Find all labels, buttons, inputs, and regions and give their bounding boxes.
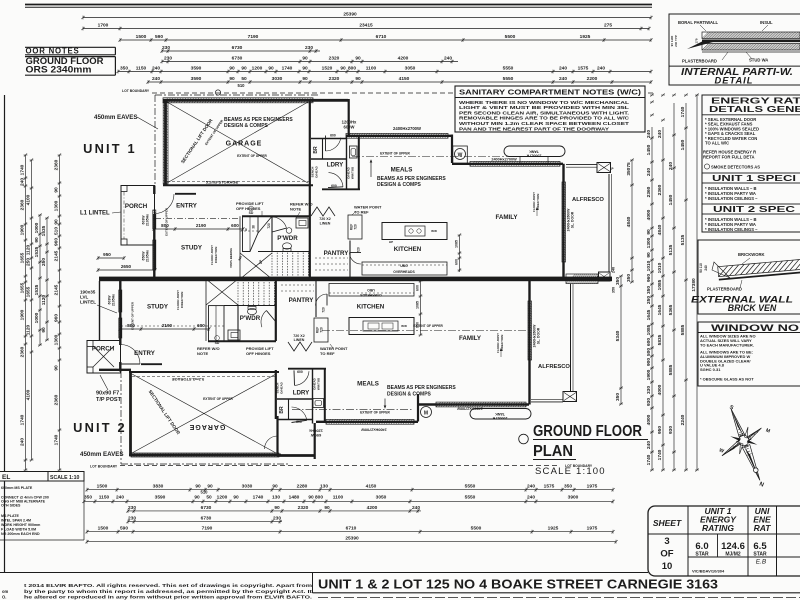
svg-text:960: 960 bbox=[54, 238, 60, 246]
svg-text:GARAGE: GARAGE bbox=[189, 423, 226, 430]
svg-text:1200: 1200 bbox=[217, 494, 228, 500]
svg-text:2400Hx2700W: 2400Hx2700W bbox=[361, 428, 387, 432]
unit 1 beams leader bbox=[370, 160, 372, 177]
svg-text:LDRY: LDRY bbox=[293, 390, 310, 397]
svg-text:ORS 2340mm: ORS 2340mm bbox=[26, 65, 92, 75]
svg-text:240: 240 bbox=[559, 76, 567, 82]
unit 2 entry door bbox=[121, 345, 141, 365]
svg-text:90: 90 bbox=[646, 252, 652, 258]
unit 2 pwdr walls bbox=[208, 340, 276, 342]
svg-text:2105Hx: 2105Hx bbox=[146, 214, 150, 226]
svg-text:1010: 1010 bbox=[646, 260, 652, 271]
svg-text:1085: 1085 bbox=[657, 279, 663, 290]
svg-text:M: M bbox=[424, 411, 428, 417]
svg-text:240: 240 bbox=[668, 162, 674, 170]
svg-text:330: 330 bbox=[646, 386, 652, 394]
svg-text:510: 510 bbox=[201, 490, 209, 495]
external wall brick veneer box bbox=[698, 240, 800, 314]
svg-text:4150: 4150 bbox=[399, 76, 410, 82]
svg-text:ENTRY: ENTRY bbox=[134, 350, 156, 357]
svg-text:90: 90 bbox=[207, 484, 213, 490]
left scan border bbox=[4, 95, 6, 572]
svg-text:1740: 1740 bbox=[646, 454, 652, 465]
svg-text:6.0: 6.0 bbox=[695, 541, 708, 552]
svg-text:4840: 4840 bbox=[657, 224, 663, 235]
svg-text:350: 350 bbox=[646, 286, 652, 294]
svg-text:DETAIL: DETAIL bbox=[715, 76, 754, 86]
svg-text:OVERHEADS: OVERHEADS bbox=[360, 293, 382, 297]
unit 1 stairs bbox=[271, 253, 273, 277]
svg-text:930: 930 bbox=[668, 426, 674, 434]
unit 1 W alcove bbox=[451, 135, 453, 164]
svg-text:2400Hx2700W: 2400Hx2700W bbox=[393, 126, 421, 131]
svg-text:1740: 1740 bbox=[20, 414, 26, 425]
svg-text:DIRECTION: DIRECTION bbox=[536, 194, 540, 211]
unit 1 alfresco top beam lines bbox=[566, 164, 597, 166]
svg-text:1150: 1150 bbox=[99, 494, 110, 500]
parti-wall title bbox=[669, 65, 800, 67]
svg-text:t 2014 ELVIR BAFTO. All ri: t 2014 ELVIR BAFTO. All rights reserved.… bbox=[24, 583, 312, 588]
svg-text:RATING: RATING bbox=[702, 523, 734, 533]
internal parti-wall detail box bbox=[669, 14, 800, 85]
unit 2 garage walls bbox=[129, 454, 281, 457]
svg-text:INSUL: INSUL bbox=[760, 20, 773, 25]
svg-text:5500: 5500 bbox=[471, 526, 482, 532]
svg-text:240: 240 bbox=[646, 130, 652, 138]
svg-text:1740: 1740 bbox=[680, 106, 686, 117]
svg-text:UNIT 1 SPECI: UNIT 1 SPECI bbox=[712, 174, 796, 183]
unit 2 br/ldry block bbox=[277, 454, 314, 457]
svg-text:600: 600 bbox=[416, 285, 420, 291]
svg-text:1900: 1900 bbox=[20, 309, 26, 320]
svg-text:600W: 600W bbox=[311, 433, 322, 438]
svg-text:4840: 4840 bbox=[626, 216, 632, 227]
svg-text:1975: 1975 bbox=[587, 526, 598, 532]
separator line above footer bbox=[0, 572, 648, 574]
unit 2 left boundary wall bbox=[99, 281, 101, 341]
svg-text:510: 510 bbox=[238, 83, 246, 88]
svg-text:BEAMS AS PER ENGINEERS: BEAMS AS PER ENGINEERS bbox=[387, 385, 456, 391]
svg-text:EXTENT OF UPPER: EXTENT OF UPPER bbox=[360, 411, 390, 415]
svg-text:W/D: W/D bbox=[401, 324, 408, 328]
svg-text:90: 90 bbox=[41, 327, 47, 333]
unit 2 pwdr door bbox=[261, 311, 266, 328]
svg-text:950: 950 bbox=[657, 426, 663, 434]
svg-text:1085: 1085 bbox=[646, 324, 652, 335]
svg-text:W/D: W/D bbox=[431, 229, 438, 233]
svg-text:6730: 6730 bbox=[232, 56, 243, 62]
svg-text:1200: 1200 bbox=[252, 66, 263, 72]
svg-text:1925: 1925 bbox=[548, 526, 559, 532]
svg-text:BORAL PARTIWALL: BORAL PARTIWALL bbox=[678, 20, 719, 25]
svg-text:TANK: TANK bbox=[495, 412, 505, 416]
unit 2 porch bbox=[87, 341, 121, 374]
svg-text:250: 250 bbox=[41, 258, 47, 266]
svg-text:90: 90 bbox=[229, 66, 235, 72]
svg-text:1300: 1300 bbox=[646, 237, 652, 248]
svg-text:2000LTR: 2000LTR bbox=[526, 154, 541, 158]
unit 1 porch bbox=[121, 186, 155, 246]
svg-text:E.B: E.B bbox=[756, 559, 767, 566]
svg-text:3590: 3590 bbox=[191, 66, 202, 72]
svg-text:SD: SD bbox=[249, 211, 254, 215]
svg-text:950: 950 bbox=[103, 252, 111, 257]
svg-text:4200: 4200 bbox=[398, 56, 409, 62]
unit 1 basin bbox=[296, 218, 308, 228]
svg-text:1740: 1740 bbox=[253, 494, 264, 500]
unit 2 porch dims 950/2650 bbox=[98, 257, 124, 259]
svg-text:1575: 1575 bbox=[578, 66, 589, 72]
svg-text:3050: 3050 bbox=[376, 494, 387, 500]
svg-text:90: 90 bbox=[54, 219, 60, 225]
svg-text:4000: 4000 bbox=[646, 209, 652, 220]
svg-text:MEALS: MEALS bbox=[357, 381, 379, 388]
svg-text:1655: 1655 bbox=[26, 286, 32, 297]
svg-text:PLASTERBOARD: PLASTERBOARD bbox=[707, 287, 742, 292]
svg-text:2280: 2280 bbox=[297, 484, 308, 490]
svg-text:TO ALL W/C: TO ALL W/C bbox=[705, 141, 729, 146]
svg-text:250: 250 bbox=[26, 258, 32, 266]
svg-text:5550: 5550 bbox=[503, 76, 514, 82]
svg-text:1450: 1450 bbox=[680, 139, 686, 150]
svg-text:3590: 3590 bbox=[191, 76, 202, 82]
svg-text:240: 240 bbox=[646, 441, 652, 449]
svg-text:600: 600 bbox=[197, 323, 205, 328]
svg-text:240: 240 bbox=[152, 76, 160, 82]
unit 1 eaves dashed outline bbox=[154, 95, 156, 186]
svg-text:6.5: 6.5 bbox=[753, 541, 767, 552]
svg-text:1120: 1120 bbox=[41, 294, 47, 305]
svg-text:SCALE 1:100: SCALE 1:100 bbox=[535, 466, 606, 477]
svg-text:P'WDR: P'WDR bbox=[277, 235, 298, 242]
unit 1 garage door diagonals bbox=[167, 102, 308, 183]
svg-text:STUD WA: STUD WA bbox=[749, 58, 768, 63]
svg-text:EL: EL bbox=[2, 474, 10, 481]
svg-text:O.: O. bbox=[2, 595, 6, 600]
svg-text:1000: 1000 bbox=[34, 312, 40, 323]
svg-text:SCALE 1:10: SCALE 1:10 bbox=[50, 475, 80, 481]
svg-text:EXTENT OF UPPER: EXTENT OF UPPER bbox=[237, 154, 267, 158]
svg-text:1655: 1655 bbox=[20, 282, 26, 293]
svg-text:5550: 5550 bbox=[465, 484, 476, 490]
svg-text:1085: 1085 bbox=[416, 301, 420, 309]
svg-text:930: 930 bbox=[646, 398, 652, 406]
svg-text:4100: 4100 bbox=[26, 389, 32, 400]
svg-text:NOTE: NOTE bbox=[290, 207, 301, 212]
svg-text:* OBSCURE GLASS AS NOT: * OBSCURE GLASS AS NOT bbox=[700, 377, 754, 382]
svg-text:90: 90 bbox=[233, 494, 239, 500]
svg-text:he altered or reproduced i: he altered or reproduced in any form wit… bbox=[24, 595, 312, 600]
svg-text:O/HEAD: O/HEAD bbox=[280, 381, 284, 394]
svg-text:NG 200mm EACH END: NG 200mm EACH END bbox=[1, 532, 40, 536]
svg-text:3590: 3590 bbox=[155, 494, 166, 500]
svg-text:4200: 4200 bbox=[367, 505, 378, 511]
svg-text:240: 240 bbox=[646, 168, 652, 176]
svg-text:3900: 3900 bbox=[568, 494, 579, 500]
svg-text:1645: 1645 bbox=[646, 309, 652, 320]
svg-text:720: 720 bbox=[357, 247, 361, 253]
svg-text:BR: BR bbox=[279, 406, 285, 414]
svg-text:230: 230 bbox=[273, 516, 281, 522]
svg-text:SL. DOOR: SL. DOOR bbox=[537, 327, 541, 344]
svg-text:1575: 1575 bbox=[544, 484, 555, 490]
svg-text:SGHC 0.31: SGHC 0.31 bbox=[700, 367, 721, 372]
svg-text:5: 5 bbox=[245, 228, 247, 232]
svg-text:90: 90 bbox=[34, 237, 40, 243]
unit 2 extent of upper line bbox=[292, 409, 412, 411]
svg-text:240: 240 bbox=[20, 438, 26, 446]
svg-text:WM/TUB: WM/TUB bbox=[351, 166, 355, 179]
svg-text:3050: 3050 bbox=[405, 66, 416, 72]
svg-text:5550: 5550 bbox=[503, 66, 514, 72]
compass rose bbox=[707, 401, 779, 490]
unit 2 toilet bbox=[248, 308, 257, 314]
svg-text:PLAN: PLAN bbox=[533, 443, 573, 460]
svg-text:240: 240 bbox=[444, 56, 452, 62]
svg-text:6730: 6730 bbox=[201, 505, 212, 511]
svg-text:5135: 5135 bbox=[680, 234, 686, 245]
svg-text:3030: 3030 bbox=[242, 484, 253, 490]
svg-text:350: 350 bbox=[615, 393, 621, 401]
svg-text:50: 50 bbox=[241, 76, 247, 82]
svg-text:VIC/BDAV/10/304: VIC/BDAV/10/304 bbox=[692, 569, 725, 574]
svg-text:600mm MS PLATE: 600mm MS PLATE bbox=[1, 486, 33, 490]
svg-text:OTH SIDES: OTH SIDES bbox=[1, 504, 21, 508]
svg-text:130: 130 bbox=[272, 494, 280, 500]
svg-text:1535: 1535 bbox=[41, 225, 47, 236]
svg-text:720: 720 bbox=[267, 223, 271, 229]
unit 1 hall dashes bbox=[239, 216, 241, 277]
unit 1 entry top wall bbox=[175, 193, 196, 195]
unit 1 closet bbox=[243, 216, 259, 251]
svg-text:1000: 1000 bbox=[34, 222, 40, 233]
svg-text:4100: 4100 bbox=[26, 194, 32, 205]
svg-text:38: 38 bbox=[252, 225, 256, 229]
svg-text:LDRY: LDRY bbox=[327, 162, 344, 169]
svg-text:450mm EAVES: 450mm EAVES bbox=[94, 114, 138, 121]
energy rating details box bbox=[702, 95, 800, 232]
svg-text:960: 960 bbox=[646, 274, 652, 282]
svg-text:1300: 1300 bbox=[54, 200, 60, 211]
unit 2 spec header bbox=[702, 204, 800, 214]
svg-text:ALFRESCO: ALFRESCO bbox=[538, 364, 570, 370]
svg-text:NOTE: NOTE bbox=[197, 351, 208, 356]
svg-text:2360: 2360 bbox=[657, 184, 663, 195]
svg-text:1655: 1655 bbox=[20, 252, 26, 263]
svg-text:INTEL SPAN 2.4M: INTEL SPAN 2.4M bbox=[1, 519, 31, 523]
unit 2 garage diagonals bbox=[132, 374, 276, 453]
svg-text:WORK HEIGHT 900mm: WORK HEIGHT 900mm bbox=[1, 523, 40, 527]
unit 2 W alcove bbox=[417, 394, 419, 422]
svg-text:1450: 1450 bbox=[668, 194, 674, 205]
svg-text:DESIGN & COMPS: DESIGN & COMPS bbox=[224, 123, 269, 129]
unit 2 garage door arc bbox=[265, 436, 278, 449]
unit 1 entry-study dim row bbox=[154, 228, 243, 230]
ground floor plan title bbox=[519, 434, 529, 444]
svg-text:240: 240 bbox=[412, 505, 420, 511]
svg-text:5885: 5885 bbox=[680, 324, 686, 335]
svg-text:2320: 2320 bbox=[298, 505, 309, 511]
svg-text:2105Hx: 2105Hx bbox=[146, 250, 150, 262]
svg-text:UNIT 1 & 2 LOT 125 NO 4 BOAKE: UNIT 1 & 2 LOT 125 NO 4 BOAKE STREET CAR… bbox=[318, 577, 718, 592]
svg-text:600: 600 bbox=[297, 370, 303, 374]
svg-text:STAR: STAR bbox=[695, 552, 709, 558]
svg-text:W: W bbox=[458, 153, 463, 159]
bottom dimension rows bbox=[87, 489, 613, 491]
svg-text:960: 960 bbox=[54, 314, 60, 322]
svg-text:FAMILY: FAMILY bbox=[459, 335, 482, 342]
svg-text:240: 240 bbox=[597, 66, 605, 72]
svg-text:179: 179 bbox=[695, 38, 699, 43]
svg-text:130: 130 bbox=[320, 484, 328, 490]
unit 2 garage storage dashed bbox=[132, 376, 277, 378]
svg-text:UBO: UBO bbox=[367, 288, 375, 292]
svg-text:FAMILY: FAMILY bbox=[495, 214, 518, 221]
svg-text:1450: 1450 bbox=[646, 144, 652, 155]
svg-text:590: 590 bbox=[120, 526, 128, 532]
svg-text:90: 90 bbox=[54, 187, 60, 193]
svg-text:5500: 5500 bbox=[505, 34, 516, 40]
svg-text:KITCHEN: KITCHEN bbox=[357, 304, 385, 311]
svg-text:1010: 1010 bbox=[657, 262, 663, 273]
svg-text:1100: 1100 bbox=[366, 66, 377, 72]
svg-text:DETAILS GENE: DETAILS GENE bbox=[709, 104, 800, 114]
svg-text:LOT BOUNDARY: LOT BOUNDARY bbox=[90, 465, 118, 469]
svg-text:2190: 2190 bbox=[162, 323, 173, 328]
svg-text:240: 240 bbox=[527, 484, 535, 490]
svg-text:STUDY: STUDY bbox=[181, 245, 203, 252]
svg-text:90: 90 bbox=[340, 66, 346, 72]
svg-text:EXTENT OF UPPER: EXTENT OF UPPER bbox=[380, 152, 410, 156]
svg-text:350: 350 bbox=[612, 287, 616, 293]
svg-text:DIRECTION: DIRECTION bbox=[180, 292, 184, 309]
svg-text:T/P POST: T/P POST bbox=[96, 397, 122, 403]
svg-text:230: 230 bbox=[128, 516, 136, 522]
svg-text:7190: 7190 bbox=[202, 526, 213, 532]
svg-text:4000: 4000 bbox=[646, 414, 652, 425]
svg-text:5.2m3-STORAGE: 5.2m3-STORAGE bbox=[171, 377, 204, 382]
unit 2 tank bbox=[470, 409, 531, 420]
svg-text:510: 510 bbox=[54, 227, 60, 235]
svg-text:BRICKWORK: BRICKWORK bbox=[738, 252, 765, 257]
svg-text:LINEN: LINEN bbox=[320, 222, 331, 226]
svg-text:230: 230 bbox=[305, 45, 313, 51]
svg-text:MS PLATE: MS PLATE bbox=[1, 514, 20, 518]
unit 1 br/ldry block bbox=[311, 99, 348, 102]
svg-text:90: 90 bbox=[302, 56, 308, 62]
svg-text:10: 10 bbox=[662, 561, 673, 572]
svg-text:WHERE THERE IS NO WINDOW TO W/: WHERE THERE IS NO WINDOW TO W/C MECHANIC… bbox=[459, 100, 629, 105]
svg-text:LIGHT & VENT MUST BE PROVIDED: LIGHT & VENT MUST BE PROVIDED WITH MIN 3… bbox=[459, 105, 629, 110]
svg-text:PORCH: PORCH bbox=[92, 346, 115, 353]
svg-text:UNIT 2 SPEC: UNIT 2 SPEC bbox=[713, 205, 795, 214]
svg-text:TO REF: TO REF bbox=[320, 351, 335, 356]
svg-text:600W: 600W bbox=[344, 125, 355, 130]
svg-text:23415: 23415 bbox=[359, 23, 373, 29]
svg-text:90: 90 bbox=[355, 56, 361, 62]
unit 1 entry door bbox=[155, 194, 175, 214]
svg-text:1500: 1500 bbox=[98, 526, 109, 532]
svg-text:250: 250 bbox=[646, 296, 652, 304]
svg-text:SANITARY COMPARTMENT NOTES (W/: SANITARY COMPARTMENT NOTES (W/C) bbox=[459, 90, 641, 97]
svg-text:240: 240 bbox=[559, 66, 567, 72]
unit 1 meals wing top wall bbox=[346, 135, 452, 137]
svg-text:600: 600 bbox=[455, 259, 459, 265]
svg-text:350: 350 bbox=[615, 277, 621, 285]
unit 2 meals wing bottom wall bbox=[316, 421, 418, 423]
svg-text:603W: 603W bbox=[108, 295, 112, 305]
svg-text:350: 350 bbox=[84, 494, 92, 500]
svg-text:SMOKE DETECTORS AS: SMOKE DETECTORS AS bbox=[711, 165, 760, 170]
svg-text:2360: 2360 bbox=[20, 199, 26, 210]
svg-text:90: 90 bbox=[229, 76, 235, 82]
unit 2 hall lines bbox=[205, 281, 207, 341]
svg-text:PLASTERBOARD: PLASTERBOARD bbox=[682, 59, 717, 64]
door notes box bbox=[25, 46, 115, 48]
unit 2 left wall bbox=[119, 281, 121, 345]
svg-text:2360: 2360 bbox=[20, 346, 26, 357]
svg-text:800: 800 bbox=[348, 66, 356, 72]
unit 1 pwdr door bbox=[272, 217, 287, 228]
svg-text:* INSULATION CEILINGS –: * INSULATION CEILINGS – bbox=[705, 196, 758, 201]
right dimension columns bbox=[620, 276, 622, 404]
svg-text:om: om bbox=[2, 589, 9, 594]
svg-text:RAT: RAT bbox=[754, 523, 772, 533]
svg-text:1700: 1700 bbox=[98, 23, 109, 29]
unit 2 kitchen bench bbox=[329, 284, 414, 297]
unit 2 fridge nook bbox=[314, 318, 328, 342]
svg-text:90: 90 bbox=[241, 66, 247, 72]
brick hatched band bbox=[718, 259, 800, 279]
svg-text:HP: HP bbox=[389, 240, 393, 244]
svg-text:230: 230 bbox=[164, 56, 172, 62]
svg-text:240: 240 bbox=[657, 130, 663, 138]
unit 1 tank bbox=[504, 146, 565, 157]
svg-text:1480: 1480 bbox=[289, 494, 300, 500]
svg-text:2320: 2320 bbox=[329, 76, 340, 82]
svg-text:REMOVABLE HINGES ARE TO BE PRO: REMOVABLE HINGES ARE TO BE PROVIDED TO A… bbox=[459, 116, 630, 121]
svg-text:2650: 2650 bbox=[121, 264, 132, 269]
svg-text:720: 720 bbox=[322, 307, 326, 313]
svg-text:500: 500 bbox=[646, 348, 652, 356]
svg-text:2400Hx2700W: 2400Hx2700W bbox=[491, 157, 517, 161]
unit 2 basin bbox=[228, 330, 240, 340]
svg-text:6730: 6730 bbox=[232, 45, 243, 51]
svg-text:EXTENT OF UPPER: EXTENT OF UPPER bbox=[203, 397, 233, 401]
svg-text:240: 240 bbox=[704, 265, 708, 271]
svg-text:STUDY: STUDY bbox=[147, 304, 169, 311]
svg-text:L1 LINTEL: L1 LINTEL bbox=[80, 211, 110, 217]
svg-text:90: 90 bbox=[274, 505, 280, 511]
unit 2 linen bbox=[288, 342, 312, 351]
svg-text:90: 90 bbox=[272, 484, 278, 490]
svg-text:5135: 5135 bbox=[668, 244, 674, 255]
svg-text:90: 90 bbox=[302, 76, 308, 82]
svg-text:90: 90 bbox=[646, 229, 652, 235]
unit 2 closet bbox=[209, 306, 225, 341]
svg-text:124.6: 124.6 bbox=[721, 541, 745, 552]
svg-text:17380: 17380 bbox=[691, 278, 697, 292]
svg-text:2000LTR: 2000LTR bbox=[492, 416, 507, 420]
svg-text:OVERHEADS: OVERHEADS bbox=[393, 270, 415, 274]
svg-text:450mm EAVES: 450mm EAVES bbox=[80, 451, 124, 458]
svg-text:2190: 2190 bbox=[196, 223, 207, 228]
svg-text:240: 240 bbox=[527, 494, 535, 500]
unit 1 left wall window labels bbox=[153, 210, 156, 229]
unit 2 eaves dashed outline bbox=[120, 371, 122, 464]
svg-text:350: 350 bbox=[564, 484, 572, 490]
svg-text:OOR NOTES: OOR NOTES bbox=[26, 47, 80, 56]
